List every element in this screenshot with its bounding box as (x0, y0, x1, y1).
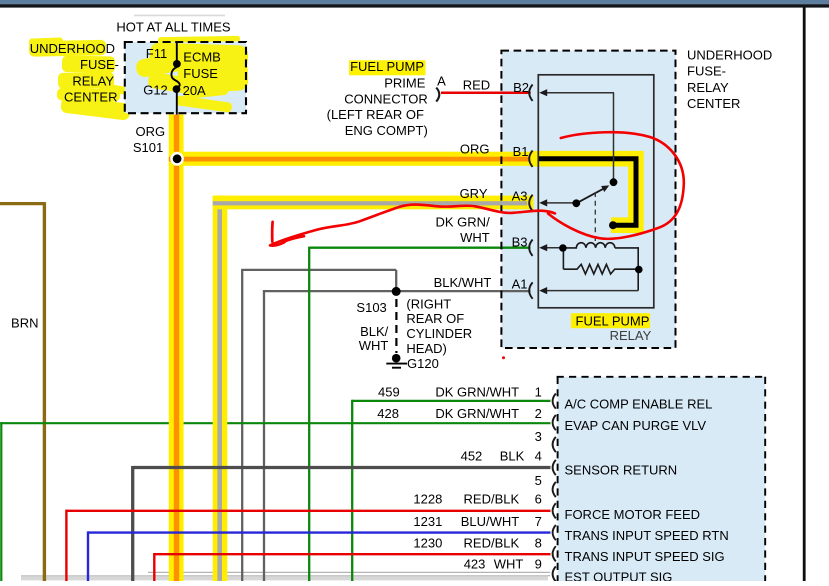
svg-text:HEAD): HEAD) (406, 341, 446, 356)
svg-text:BRN: BRN (11, 316, 38, 331)
svg-text:5: 5 (535, 473, 542, 488)
svg-text:S103: S103 (356, 300, 386, 315)
svg-text:6: 6 (535, 492, 542, 507)
svg-text:WHT: WHT (359, 338, 389, 353)
svg-text:BLU/WHT: BLU/WHT (461, 514, 520, 529)
svg-text:423: 423 (464, 557, 486, 572)
svg-text:CENTER: CENTER (64, 90, 117, 105)
svg-text:EVAP CAN PURGE VLV: EVAP CAN PURGE VLV (565, 418, 707, 433)
svg-text:FUEL PUMP: FUEL PUMP (350, 59, 424, 74)
svg-text:SENSOR RETURN: SENSOR RETURN (565, 463, 678, 478)
svg-text:DK GRN/WHT: DK GRN/WHT (435, 385, 519, 400)
svg-text:428: 428 (377, 406, 399, 421)
svg-text:452: 452 (461, 448, 483, 463)
svg-text:WHT: WHT (494, 557, 524, 572)
svg-text:FORCE MOTOR FEED: FORCE MOTOR FEED (565, 507, 701, 522)
svg-text:1: 1 (535, 385, 542, 400)
svg-text:ECMB: ECMB (183, 50, 221, 65)
svg-text:B3: B3 (512, 234, 528, 249)
svg-text:CONNECTOR: CONNECTOR (344, 91, 428, 106)
svg-text:(LEFT REAR OF: (LEFT REAR OF (327, 107, 424, 122)
svg-text:RED: RED (463, 78, 490, 93)
svg-text:FUSE: FUSE (183, 66, 218, 81)
svg-text:A3: A3 (512, 189, 528, 204)
svg-text:RELAY: RELAY (610, 328, 652, 343)
svg-text:4: 4 (535, 448, 542, 463)
svg-text:A/C COMP ENABLE REL: A/C COMP ENABLE REL (565, 396, 713, 411)
svg-text:FUEL PUMP: FUEL PUMP (576, 313, 650, 328)
svg-text:A: A (437, 74, 446, 89)
svg-text:TRANS INPUT SPEED SIG: TRANS INPUT SPEED SIG (565, 549, 725, 564)
svg-text:PRIME: PRIME (384, 76, 426, 91)
svg-text:7: 7 (535, 514, 542, 529)
svg-text:BLK/WHT: BLK/WHT (434, 275, 492, 290)
svg-text:CYLINDER: CYLINDER (406, 326, 472, 341)
svg-text:1231: 1231 (413, 514, 442, 529)
svg-text:B2: B2 (513, 80, 529, 95)
svg-text:EST OUTPUT SIG: EST OUTPUT SIG (565, 569, 673, 581)
svg-text:HOT AT ALL TIMES: HOT AT ALL TIMES (116, 20, 230, 35)
svg-text:RED/BLK: RED/BLK (464, 536, 520, 551)
svg-text:S101: S101 (133, 140, 163, 155)
svg-text:FUSE-: FUSE- (687, 64, 726, 79)
svg-text:2: 2 (535, 406, 542, 421)
svg-text:CENTER: CENTER (687, 96, 740, 111)
svg-text:G120: G120 (407, 356, 439, 371)
svg-text:RELAY: RELAY (687, 80, 729, 95)
svg-text:B1: B1 (513, 144, 529, 159)
svg-text:WHT: WHT (460, 230, 490, 245)
svg-text:TRANS INPUT SPEED RTN: TRANS INPUT SPEED RTN (565, 528, 729, 543)
svg-text:DK GRN/: DK GRN/ (436, 215, 491, 230)
svg-text:A1: A1 (512, 276, 528, 291)
svg-text:459: 459 (378, 385, 400, 400)
svg-text:(RIGHT: (RIGHT (406, 296, 451, 311)
svg-text:9: 9 (535, 557, 542, 572)
svg-text:BLK/: BLK/ (360, 324, 389, 339)
svg-text:8: 8 (535, 536, 542, 551)
svg-text:FUSE-: FUSE- (80, 57, 119, 72)
svg-text:RELAY: RELAY (72, 73, 114, 88)
svg-text:20A: 20A (183, 83, 206, 98)
svg-text:ORG: ORG (460, 141, 490, 156)
svg-text:F11: F11 (146, 46, 167, 61)
svg-text:UNDERHOOD: UNDERHOOD (30, 41, 115, 56)
svg-text:G12: G12 (143, 83, 168, 98)
svg-text:ORG: ORG (135, 124, 165, 139)
svg-text:BLK: BLK (500, 448, 525, 463)
svg-text:RED/BLK: RED/BLK (464, 492, 520, 507)
svg-text:DK GRN/WHT: DK GRN/WHT (435, 406, 519, 421)
svg-text:1228: 1228 (413, 492, 442, 507)
svg-text:REAR OF: REAR OF (406, 311, 464, 326)
svg-text:GRY: GRY (460, 186, 488, 201)
svg-text:ENG COMPT): ENG COMPT) (345, 123, 428, 138)
svg-text:UNDERHOOD: UNDERHOOD (687, 47, 772, 62)
svg-text:3: 3 (535, 429, 542, 444)
svg-text:1230: 1230 (413, 536, 442, 551)
